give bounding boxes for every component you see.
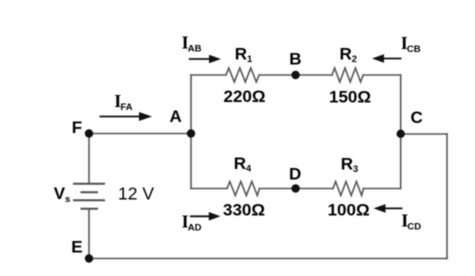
node C [397, 130, 405, 138]
arrow ICB [372, 54, 402, 63]
svg-text:D: D [289, 165, 301, 184]
svg-text:1: 1 [247, 54, 253, 65]
wire bottom rail [89, 258, 447, 260]
svg-text:220Ω: 220Ω [224, 87, 266, 106]
svg-text:FA: FA [121, 102, 133, 113]
resistor R4 [227, 182, 260, 196]
svg-text:R: R [234, 154, 246, 173]
svg-text:A: A [169, 107, 181, 126]
svg-text:CD: CD [407, 222, 421, 233]
node D [291, 184, 299, 192]
svg-text:s: s [65, 194, 70, 205]
wire R4 to D [260, 188, 297, 190]
node A [187, 129, 195, 137]
svg-text:150Ω: 150Ω [329, 88, 371, 107]
wire battery to E [88, 209, 90, 259]
wire R2 to top-right corner [363, 74, 401, 76]
arrow IAD [190, 212, 221, 221]
svg-text:R: R [235, 44, 247, 63]
svg-text:AB: AB [188, 44, 202, 55]
arrow ICD [374, 204, 403, 213]
wire A riser up to top branch [190, 75, 192, 134]
svg-text:F: F [72, 118, 82, 137]
wire D to R3 [296, 188, 333, 190]
wire top branch left segment [191, 74, 226, 76]
svg-text:V: V [54, 184, 66, 203]
svg-text:AD: AD [188, 223, 202, 234]
wire A riser down to bottom branch [190, 134, 192, 189]
wire R1 to B to R2 [259, 74, 332, 76]
svg-text:R: R [341, 155, 353, 174]
wire left rail F to battery [88, 134, 90, 184]
node B [291, 71, 299, 79]
wire F to A [89, 133, 191, 135]
svg-text:100Ω: 100Ω [328, 201, 370, 220]
wire C to right outer corner [401, 133, 447, 135]
resistor R1 [226, 68, 259, 82]
svg-text:2: 2 [352, 54, 357, 65]
wire bottom branch right segment [364, 188, 401, 190]
svg-text:E: E [71, 238, 82, 257]
svg-text:4: 4 [246, 164, 252, 175]
arrow IAB [189, 55, 221, 64]
svg-text:R: R [340, 45, 352, 64]
svg-text:12 V: 12 V [118, 184, 154, 204]
wire right riser through C [400, 75, 402, 189]
svg-text:3: 3 [353, 164, 358, 175]
svg-text:330Ω: 330Ω [223, 201, 265, 220]
svg-text:CB: CB [407, 44, 421, 55]
wire bottom branch left segment [191, 188, 227, 190]
node F [85, 129, 93, 137]
svg-text:B: B [289, 50, 301, 69]
svg-text:C: C [410, 108, 422, 127]
resistor R3 [333, 182, 364, 196]
node E [85, 254, 93, 262]
resistor R2 [332, 68, 363, 82]
wire right outer down [446, 134, 448, 259]
battery Vs [73, 184, 105, 209]
arrow IFA [100, 112, 153, 121]
